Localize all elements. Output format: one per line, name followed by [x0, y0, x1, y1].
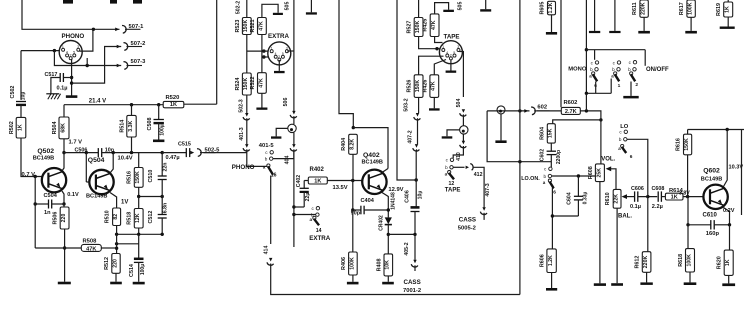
resistor R619 1K: [727, 0, 729, 2]
svg-text:C610: C610: [703, 213, 718, 219]
wire 404 line down: [293, 151, 295, 247]
svg-text:407-2: 407-2: [408, 130, 414, 143]
connector 405-2: [413, 260, 416, 264]
connector 414: [269, 258, 272, 262]
wire Q402 emitter: [382, 193, 388, 200]
component stub blob 2: [110, 0, 117, 4]
ground stub near 505 TAPE: [443, 10, 454, 12]
wire b contact to 404 line: [294, 214, 316, 216]
svg-text:R616: R616: [676, 138, 682, 151]
svg-text:C514: C514: [129, 264, 135, 277]
switch EXTRA arm a: [313, 216, 316, 219]
svg-text:401-3: 401-3: [239, 127, 245, 140]
svg-text:1K: 1K: [725, 6, 731, 13]
svg-text:507-2: 507-2: [131, 41, 146, 47]
svg-text:EXTRA: EXTRA: [268, 33, 290, 40]
connector 507-3: [117, 64, 121, 68]
wire base feedback column: [34, 177, 36, 249]
svg-text:0.7 V: 0.7 V: [22, 172, 36, 178]
wire C406 bottom to 405-2: [414, 234, 416, 260]
ground under R506: [58, 282, 71, 285]
svg-text:b: b: [544, 174, 547, 179]
ground under R512: [115, 273, 117, 281]
resistor R522 47K: [258, 73, 267, 94]
svg-text:505: 505: [285, 2, 291, 11]
svg-text:PHONO: PHONO: [232, 164, 255, 171]
wire 502-5 to 401-3 chain: [204, 152, 247, 154]
svg-text:12K: 12K: [135, 213, 141, 223]
ground under C514: [133, 282, 145, 285]
svg-text:Q402: Q402: [363, 152, 380, 159]
wire 10.3V rail: [688, 129, 744, 131]
wire Q504 collector: [110, 153, 113, 173]
svg-text:b: b: [265, 156, 268, 161]
connector pair 404: [292, 144, 295, 148]
svg-text:C602: C602: [539, 149, 545, 162]
wire R518-C512 bottom junction: [138, 228, 140, 234]
svg-text:3: 3: [286, 46, 288, 50]
svg-text:407-3: 407-3: [485, 183, 491, 196]
ground under R618: [684, 282, 697, 285]
svg-text:47K: 47K: [258, 78, 264, 88]
ground under R522: [261, 93, 263, 107]
wire R610 bottom to ground: [616, 208, 618, 283]
resistor R504 68K: [59, 117, 69, 139]
svg-text:1.2K: 1.2K: [548, 255, 554, 266]
wire to connector circle: [293, 118, 295, 124]
svg-text:C608: C608: [652, 186, 665, 192]
svg-text:47K: 47K: [258, 21, 264, 31]
wire R504 to collector node: [63, 139, 65, 153]
svg-text:0.1V: 0.1V: [67, 192, 79, 198]
svg-text:0.2V: 0.2V: [723, 208, 735, 214]
capacitor C604 0.33u: [577, 176, 579, 196]
svg-text:BAL.: BAL.: [618, 213, 632, 219]
wire R614 to Q602 base: [683, 196, 704, 198]
svg-text:R602: R602: [564, 100, 578, 106]
svg-text:b: b: [619, 137, 622, 142]
resistor R518 12K: [138, 197, 140, 209]
svg-text:100µ: 100µ: [140, 264, 146, 275]
wire Q602 emitter: [724, 208, 730, 225]
svg-text:405-2: 405-2: [404, 242, 410, 255]
capacitor C602 2200p: [550, 143, 552, 151]
switch MONO arm: [592, 72, 595, 75]
potentiometer R610 22K: [613, 189, 621, 208]
switch LO arm: [621, 144, 624, 147]
svg-text:1: 1: [62, 45, 64, 49]
svg-text:R402: R402: [310, 167, 325, 173]
svg-text:R518: R518: [127, 212, 133, 225]
ground under R620: [722, 283, 735, 286]
svg-text:220K: 220K: [641, 2, 647, 15]
ground under R617: [685, 31, 697, 34]
svg-text:PHONO: PHONO: [62, 33, 85, 40]
svg-text:R524: R524: [235, 78, 241, 91]
wire C506 to 10.4V node: [102, 152, 163, 154]
svg-text:a: a: [263, 165, 266, 170]
resistor R606 1.2K: [547, 249, 556, 273]
resistor R508 4.7K: [35, 247, 81, 249]
wire R523 to EXTRA pin: [246, 35, 248, 74]
svg-text:C512: C512: [148, 211, 154, 224]
svg-text:R516: R516: [127, 171, 133, 184]
connector pair 410: [462, 141, 465, 145]
wire R604 top link: [553, 120, 601, 124]
svg-text:21.4 V: 21.4 V: [89, 99, 106, 105]
connector 502-5: [190, 151, 194, 155]
svg-text:150K: 150K: [243, 78, 249, 91]
svg-text:4: 4: [66, 51, 68, 55]
svg-text:a: a: [543, 180, 546, 185]
svg-text:1K: 1K: [314, 178, 321, 184]
svg-text:10µ: 10µ: [418, 191, 424, 200]
svg-text:150K: 150K: [415, 21, 421, 34]
svg-text:1: 1: [618, 83, 621, 89]
connector 507-2: [117, 45, 121, 49]
svg-text:1: 1: [442, 45, 444, 49]
svg-text:5: 5: [453, 51, 455, 55]
svg-text:414: 414: [263, 246, 269, 255]
switch C contact b: [633, 68, 636, 71]
ground under R611: [638, 31, 650, 34]
ground under R619: [720, 27, 735, 29]
component stub blob 1: [63, 0, 73, 4]
wire R521 to EXTRA pin: [261, 35, 263, 73]
svg-text:4: 4: [275, 52, 277, 56]
svg-text:12: 12: [449, 181, 455, 187]
connector circle 401-5 chain: [288, 124, 296, 132]
resistor R512 220: [112, 254, 120, 274]
wire Q504 emitter: [110, 193, 117, 209]
switch LO-ON contact b: [548, 174, 551, 177]
svg-text:150K: 150K: [243, 20, 249, 33]
connector circle on 602 line: [497, 106, 505, 114]
wire R608 top: [600, 120, 602, 164]
svg-text:47K: 47K: [431, 81, 437, 91]
wire Q402 collector: [382, 169, 388, 173]
svg-text:0.33µ: 0.33µ: [583, 192, 589, 205]
wire stub ground 2: [614, 0, 616, 31]
wire diode node to C406: [388, 233, 415, 235]
svg-text:3.8V: 3.8V: [679, 191, 690, 197]
svg-text:504: 504: [456, 99, 462, 108]
svg-text:1K: 1K: [725, 259, 731, 266]
wire b to 412 connectors: [453, 166, 464, 168]
svg-text:160p: 160p: [706, 231, 720, 237]
wire TAPE input line from top: [397, 0, 416, 180]
svg-text:CASS: CASS: [404, 279, 421, 286]
resistor R616 150K: [687, 130, 689, 135]
switch TAPE contact c: [450, 158, 453, 161]
resistor R523 150K: [246, 0, 248, 18]
svg-text:507-1: 507-1: [129, 24, 145, 30]
wire R526 bottom chain: [418, 97, 420, 113]
wire 410 chain to TAPE switch c: [453, 148, 463, 158]
resistor R524 150K: [242, 73, 251, 95]
wire emitter to ground: [64, 229, 66, 282]
svg-text:220: 220: [112, 259, 118, 268]
capacitor C508 100u: [158, 105, 160, 120]
ground under ON-OFF switch: [623, 96, 638, 99]
switch B contact c: [617, 61, 620, 64]
svg-text:CASS: CASS: [459, 217, 476, 224]
wire PHONO bottom pin to ground: [71, 59, 73, 96]
svg-text:R512: R512: [104, 257, 110, 270]
ground under R606: [546, 288, 557, 291]
switch C arm: [630, 72, 633, 75]
connector pair 503-2: [416, 113, 419, 117]
svg-text:10K: 10K: [385, 260, 391, 270]
svg-text:R506: R506: [53, 212, 59, 225]
wire MONO top rail: [585, 0, 587, 93]
wire R402 to Q402 base: [327, 180, 362, 182]
svg-text:10.4V: 10.4V: [118, 155, 133, 161]
ground hatched at C517: [46, 93, 59, 95]
wire PHONO left pin to C502 column: [21, 50, 60, 52]
wire R524 bottom: [246, 95, 248, 113]
svg-text:R426: R426: [422, 80, 428, 93]
resistor R426 47K: [430, 75, 439, 98]
svg-text:412: 412: [474, 172, 483, 178]
svg-text:47K: 47K: [431, 20, 437, 30]
wire 506 line from top: [293, 0, 295, 111]
svg-text:Q504: Q504: [88, 157, 105, 164]
svg-text:R408: R408: [376, 258, 382, 271]
svg-text:MONO: MONO: [568, 66, 587, 72]
svg-text:502-3: 502-3: [238, 99, 244, 112]
wire EXTRA center pin ground: [278, 60, 280, 71]
svg-text:R606: R606: [540, 254, 546, 267]
svg-text:CR402: CR402: [378, 215, 384, 231]
svg-text:1: 1: [271, 46, 273, 50]
svg-text:VOL.: VOL.: [601, 156, 615, 162]
wire EXTRA right pin stub: [287, 50, 294, 52]
switch B arm: [614, 72, 617, 75]
capacitor C404 90p: [352, 181, 354, 211]
wire bus vertical x520: [519, 0, 521, 295]
connector pair 504: [462, 109, 465, 113]
wire 602 line vertical drop: [487, 111, 551, 162]
connector 602: [524, 109, 528, 113]
svg-text:TAPE: TAPE: [444, 33, 460, 40]
ground under R408: [382, 282, 394, 285]
connector pair 412 horizontal: [466, 166, 469, 169]
svg-text:150K: 150K: [135, 171, 141, 184]
svg-text:b: b: [590, 67, 593, 72]
wire right edge vertical: [741, 130, 743, 216]
resistor R604 15K: [547, 124, 555, 143]
wire 602 line: [487, 110, 529, 112]
wire R608 bottom to ground: [599, 182, 601, 284]
svg-text:22K: 22K: [614, 194, 620, 204]
wire R425 to TAPE pin: [435, 37, 443, 43]
capacitor C502 10u: [16, 101, 26, 103]
switch B contact b: [617, 68, 620, 71]
switch MONO contact b: [595, 68, 598, 71]
wire TAPE bottom pin to R426: [434, 60, 446, 75]
svg-text:R608: R608: [588, 166, 594, 179]
capacitor C510 22n: [161, 153, 163, 176]
capacitor C512 6.8n: [161, 197, 163, 215]
svg-text:401-5: 401-5: [259, 143, 275, 149]
svg-text:R605: R605: [540, 2, 546, 15]
svg-text:R604: R604: [539, 127, 545, 140]
svg-text:C502: C502: [10, 86, 16, 99]
wiper arrow R608: [606, 166, 612, 171]
wire connector to next pair: [293, 133, 295, 145]
svg-text:3: 3: [77, 45, 79, 49]
svg-text:R610: R610: [605, 192, 611, 205]
svg-text:R617: R617: [679, 2, 685, 15]
svg-text:C406: C406: [405, 190, 411, 203]
switch EXTRA contact c: [316, 207, 319, 210]
connector 407-3: [482, 207, 485, 211]
wire C606 to C608: [638, 196, 657, 198]
wire 407-2 down to C406: [415, 151, 417, 207]
svg-text:C504: C504: [44, 193, 58, 199]
wire LO b to R612 column: [627, 139, 648, 196]
svg-text:410: 410: [456, 152, 462, 161]
wire switch arm down 414: [270, 176, 272, 245]
resistor R506 220: [63, 204, 65, 207]
wire MONO bottom link: [586, 92, 611, 94]
svg-text:BC149B: BC149B: [701, 177, 722, 183]
ground under R610: [611, 283, 623, 286]
svg-text:0.1µ: 0.1µ: [57, 86, 68, 92]
svg-text:R618: R618: [678, 254, 684, 267]
switch TAPE arm a: [448, 171, 451, 174]
svg-text:150K: 150K: [684, 138, 690, 151]
potentiometer R610 22K wiper: [622, 194, 628, 199]
svg-text:TAPE: TAPE: [445, 188, 461, 194]
svg-text:100K: 100K: [686, 254, 692, 267]
svg-text:R504: R504: [52, 121, 58, 134]
svg-text:150K: 150K: [415, 80, 421, 93]
resistor R526 150K: [414, 75, 423, 98]
connector 507-1: [115, 28, 119, 32]
svg-text:1K: 1K: [17, 124, 23, 131]
wire 412 to 407-3 down: [473, 167, 484, 207]
wire R510 bottom column: [116, 226, 118, 254]
connector pair 506: [292, 111, 295, 115]
svg-text:EXTRA: EXTRA: [309, 235, 331, 242]
connector circle 504 chain: [460, 126, 468, 134]
ground stub at 504 connector circle: [447, 130, 460, 136]
switch LO contact b: [624, 138, 627, 141]
svg-text:503-2: 503-2: [404, 98, 410, 111]
wire Q502 emitter column: [62, 191, 64, 204]
wire Q502 collector: [62, 153, 64, 171]
wire Q504 base: [85, 153, 87, 182]
svg-text:C604: C604: [566, 192, 572, 205]
wire R502 to Q502 base: [21, 138, 42, 177]
svg-text:ON/OFF: ON/OFF: [646, 67, 669, 73]
switch LO-ON arm a: [548, 179, 551, 182]
wire b contact from 401-5 chain: [273, 151, 294, 159]
resistor R502 1K: [16, 117, 26, 138]
ground under R605: [546, 32, 557, 35]
svg-text:22µ: 22µ: [305, 193, 311, 202]
connector pair 502-3: [245, 113, 248, 117]
switch TAPE contact b: [450, 166, 453, 169]
svg-text:6: 6: [553, 189, 556, 195]
svg-text:Q602: Q602: [703, 168, 720, 175]
capacitor C514 100u: [138, 234, 140, 258]
switch PHONO arm a: [267, 164, 270, 167]
resistor R620 1K: [729, 225, 731, 250]
svg-text:13.5V: 13.5V: [333, 185, 348, 191]
svg-text:R521: R521: [250, 20, 256, 33]
svg-text:R522: R522: [250, 77, 256, 90]
ground stub at connector: [276, 128, 288, 136]
resistor R527 150K: [418, 0, 420, 18]
svg-text:4: 4: [446, 51, 448, 55]
wire LO-ON arm to R606: [552, 188, 553, 249]
ground under R426: [433, 97, 435, 108]
svg-text:BC149B: BC149B: [33, 155, 54, 161]
svg-text:Q502: Q502: [37, 148, 54, 155]
svg-text:LO: LO: [620, 124, 629, 130]
switch C contact c: [633, 61, 636, 64]
resistor R605 1.2K: [548, 1, 556, 15]
svg-text:R508: R508: [83, 238, 98, 244]
switch LO-ON contact c: [549, 167, 552, 170]
svg-text:47K: 47K: [86, 246, 96, 252]
ground stub top x486: [485, 0, 487, 9]
ground under C508: [153, 140, 164, 143]
resistor R614 1K: [661, 196, 665, 198]
svg-text:6: 6: [630, 154, 633, 160]
svg-text:22n: 22n: [163, 163, 169, 172]
wire MONO rail to R602 node: [585, 93, 587, 111]
svg-text:505: 505: [458, 2, 464, 11]
connector pair 407-2: [415, 144, 418, 148]
svg-text:C515: C515: [178, 141, 191, 147]
svg-text:a: a: [445, 171, 448, 176]
svg-text:C402: C402: [296, 175, 302, 188]
wire right border vertical: [216, 0, 218, 104]
svg-text:16: 16: [271, 173, 277, 179]
resistor R617 100K: [687, 0, 695, 17]
ground stub near 505: [273, 13, 283, 15]
resistor R510 82: [113, 208, 121, 226]
resistor R521 47K: [262, 4, 278, 17]
resistor R516 150K: [138, 153, 140, 168]
node junction on top wire: [92, 28, 95, 31]
svg-text:14: 14: [316, 228, 322, 234]
svg-text:3: 3: [457, 45, 459, 49]
svg-text:7001-2: 7001-2: [403, 288, 421, 294]
ground under R406: [347, 282, 359, 285]
wire C402 bottom to 404 line: [294, 206, 304, 208]
svg-text:2: 2: [635, 82, 638, 88]
resistor R514 3.3K: [131, 105, 133, 116]
svg-text:25K: 25K: [596, 168, 602, 178]
wire LO-ON b to R608: [552, 175, 596, 177]
resistor R612 220K: [647, 197, 649, 252]
svg-text:b: b: [612, 67, 615, 72]
svg-text:R612: R612: [635, 256, 641, 269]
svg-text:C510: C510: [148, 170, 154, 183]
svg-text:R510: R510: [105, 210, 111, 223]
svg-text:1K: 1K: [671, 194, 678, 200]
svg-text:R611: R611: [632, 2, 638, 15]
switch PHONO contact c: [270, 151, 273, 154]
svg-text:1n: 1n: [44, 210, 51, 216]
wire R527 to TAPE pin: [419, 37, 440, 49]
wire supply to R404: [339, 0, 353, 128]
